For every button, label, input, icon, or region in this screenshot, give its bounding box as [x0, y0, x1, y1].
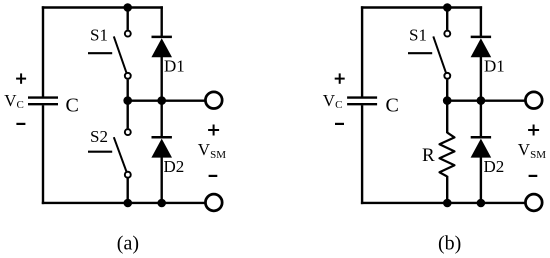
- switch S2 (a): [88, 129, 131, 177]
- svg-text:D1: D1: [484, 57, 505, 76]
- svg-text:D2: D2: [484, 157, 505, 176]
- wire: junction to S1 (b): [446, 8, 448, 30]
- wire: left side upper (a): [42, 6, 44, 96]
- svg-text:VSM: VSM: [198, 140, 226, 161]
- wire: top rail to D1 (a): [160, 6, 162, 36]
- resistor R (b): [440, 133, 455, 177]
- wire: D1 to middle rail (b): [480, 56, 482, 101]
- terminal: output bottom (b): [525, 194, 542, 211]
- svg-text:S1: S1: [90, 26, 108, 45]
- node: bottom junction left (a): [124, 199, 133, 208]
- label minus of V_C (a): [16, 123, 25, 125]
- wire: middle rail to S2 (a): [126, 101, 128, 129]
- node: top junction (a): [123, 3, 132, 12]
- terminal: output top (b): [525, 92, 542, 109]
- svg-text:D2: D2: [164, 157, 185, 176]
- svg-text:(a): (a): [117, 233, 139, 255]
- wire: top rail to D1 (b): [480, 6, 482, 36]
- wire: D2 to bottom rail (b): [480, 157, 482, 203]
- wire: left side lower (b): [361, 105, 363, 204]
- switch S1 (b): [408, 31, 450, 79]
- wire: S1 to middle rail (b): [446, 80, 448, 102]
- wire: bottom rail (a): [42, 202, 206, 204]
- label + of V_C (a): [16, 73, 26, 83]
- wire: left side upper (b): [361, 6, 363, 96]
- wire: left side lower (a): [42, 105, 44, 204]
- wire: top rail (a): [42, 6, 163, 8]
- label + of V_SM (b): [528, 125, 539, 136]
- wire: bottom rail (b): [361, 202, 526, 204]
- svg-text:VC: VC: [4, 91, 24, 111]
- diode D2 (b): [471, 137, 492, 157]
- label minus of V_SM (a): [209, 175, 218, 177]
- wire: D1 to middle rail (a): [160, 56, 162, 101]
- wire: middle rail (b): [447, 99, 526, 101]
- wire: middle rail to D2 (a): [160, 101, 162, 137]
- wire: junction to S1 (a): [126, 8, 128, 30]
- wire: middle rail to D2 (b): [480, 101, 482, 137]
- node: top junction (b): [443, 3, 452, 12]
- capacitor C (b): [347, 98, 377, 105]
- switch S1 (a): [88, 31, 131, 79]
- diode D1 (a): [151, 37, 172, 57]
- svg-text:C: C: [66, 95, 79, 117]
- node: middle junction right (a): [157, 96, 166, 105]
- node: bottom junction left (b): [443, 199, 452, 208]
- terminal: output bottom (a): [205, 194, 222, 211]
- label + of V_SM (a): [208, 125, 219, 136]
- label minus of V_SM (b): [529, 175, 538, 177]
- node: middle junction right (b): [477, 96, 486, 105]
- wire: D2 to bottom rail (a): [160, 157, 162, 203]
- wire: middle rail (a): [128, 99, 206, 101]
- svg-text:C: C: [386, 95, 399, 117]
- terminal: output top (a): [205, 92, 222, 109]
- capacitor C (a): [28, 98, 58, 105]
- node: bottom junction right (b): [477, 199, 486, 208]
- svg-text:D1: D1: [164, 57, 185, 76]
- label + of V_C (b): [335, 73, 345, 83]
- wire: S1 to middle rail (a): [126, 80, 128, 102]
- wire: resistor to bottom rail (b): [446, 176, 448, 203]
- wire: S2 to bottom rail (a): [126, 178, 128, 203]
- svg-text:(b): (b): [438, 233, 461, 255]
- svg-text:R: R: [422, 145, 435, 166]
- diode D2 (a): [151, 137, 172, 157]
- label minus of V_C (b): [335, 123, 344, 125]
- node: bottom junction right (a): [157, 199, 166, 208]
- svg-text:S1: S1: [409, 26, 427, 45]
- wire: top rail (b): [361, 6, 482, 8]
- wire: middle rail to resistor (b): [446, 101, 448, 134]
- svg-text:S2: S2: [90, 127, 108, 146]
- diode D1 (b): [471, 37, 492, 57]
- node: middle junction left (b): [443, 96, 452, 105]
- svg-text:VSM: VSM: [518, 140, 546, 161]
- svg-text:VC: VC: [323, 91, 343, 111]
- node: middle junction left (a): [123, 96, 132, 105]
